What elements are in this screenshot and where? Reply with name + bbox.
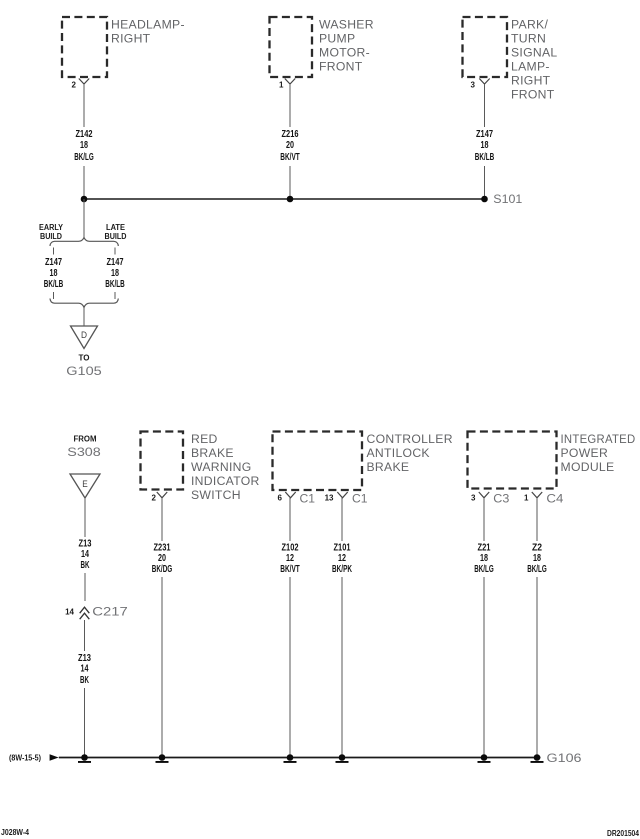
in-line connector C217 pin 14	[65, 605, 128, 620]
svg-text:Z2: Z2	[532, 543, 542, 554]
ground junction Z21	[478, 754, 491, 763]
svg-text:13: 13	[325, 494, 334, 503]
svg-text:POWER: POWER	[561, 446, 609, 460]
svg-text:Z142: Z142	[76, 129, 93, 140]
wire stub late build lower	[114, 292, 116, 299]
svg-text:WARNING: WARNING	[191, 460, 252, 474]
pin 2 of headlamp-right	[72, 79, 90, 90]
wire Z231 to ground bus	[161, 498, 163, 757]
ground junction Z2 and label G106	[531, 751, 582, 765]
svg-text:D: D	[81, 330, 87, 340]
svg-text:18: 18	[481, 140, 489, 151]
svg-text:18: 18	[533, 553, 541, 564]
svg-text:C1: C1	[352, 492, 368, 506]
svg-text:INTEGRATED: INTEGRATED	[561, 432, 636, 446]
wire stub early build lower	[53, 292, 55, 299]
svg-text:BK/PK: BK/PK	[332, 564, 352, 575]
svg-text:Z13: Z13	[78, 653, 91, 664]
svg-text:RIGHT: RIGHT	[511, 74, 551, 88]
svg-text:BK: BK	[81, 560, 90, 571]
svg-text:BK/LB: BK/LB	[105, 279, 125, 290]
svg-text:PUMP: PUMP	[319, 32, 355, 46]
svg-text:20: 20	[158, 553, 166, 564]
svg-text:BK/LG: BK/LG	[474, 564, 494, 575]
svg-text:LAMP-: LAMP-	[511, 60, 550, 74]
wire label Z147 18 BK/LB late build	[105, 257, 125, 290]
svg-text:S308: S308	[67, 445, 101, 459]
wire Z102 to ground bus	[289, 498, 291, 757]
svg-text:E: E	[82, 479, 88, 489]
wire label Z13 14 BK lower	[78, 653, 91, 686]
svg-text:3: 3	[471, 81, 476, 90]
svg-text:BK: BK	[80, 675, 89, 686]
pin 13 connector C1 of controller antilock brake	[325, 492, 368, 506]
svg-text:20: 20	[286, 140, 294, 151]
svg-text:12: 12	[338, 553, 346, 564]
merge brace lower	[50, 299, 118, 308]
svg-text:J028W-4: J028W-4	[1, 828, 29, 837]
svg-text:2: 2	[72, 81, 77, 90]
wire label Z147 18 BK/LB early build	[44, 257, 64, 290]
pin 1 connector C4 of integrated power module	[524, 492, 564, 506]
svg-text:BK/LG: BK/LG	[74, 152, 94, 163]
svg-text:BK/DG: BK/DG	[152, 564, 173, 575]
svg-text:C3: C3	[493, 492, 509, 506]
svg-text:PARK/: PARK/	[511, 18, 548, 32]
wire label Z21 18 BK/LG	[474, 543, 494, 576]
svg-text:6: 6	[278, 494, 283, 503]
ground junction Z231	[156, 754, 169, 763]
junction dot at headlamp wire on S101	[81, 196, 88, 203]
bus wire of splice S101	[84, 198, 485, 200]
svg-text:18: 18	[111, 268, 119, 279]
svg-text:RED: RED	[191, 432, 218, 446]
svg-text:BRAKE: BRAKE	[191, 446, 234, 460]
svg-text:14: 14	[65, 608, 74, 617]
ground junction Z13	[78, 754, 91, 763]
svg-text:18: 18	[80, 140, 88, 151]
svg-text:BK/VT: BK/VT	[280, 152, 300, 163]
component box: CONTROLLER ANTILOCK BRAKE	[273, 432, 453, 491]
svg-text:FROM: FROM	[74, 435, 97, 444]
wire label Z216 20 BK/VT	[280, 129, 300, 163]
svg-text:BRAKE: BRAKE	[367, 460, 410, 474]
svg-text:18: 18	[50, 268, 58, 279]
off-page connector D to G105	[71, 326, 98, 349]
svg-text:14: 14	[81, 549, 89, 560]
wire label Z147 18 BK/LB	[475, 129, 495, 163]
component box: INTEGRATED POWER MODULE	[468, 432, 636, 489]
svg-text:BK/LB: BK/LB	[44, 279, 64, 290]
svg-text:Z147: Z147	[45, 257, 62, 268]
junction dot at washer pump wire on S101	[287, 196, 294, 203]
svg-text:14: 14	[81, 664, 89, 675]
label FROM S308	[67, 435, 101, 460]
label TO G105	[66, 354, 102, 379]
pin 2 of red brake warning switch	[152, 492, 168, 503]
svg-text:EARLY: EARLY	[39, 223, 64, 232]
svg-text:Z101: Z101	[334, 543, 351, 554]
svg-text:Z216: Z216	[282, 129, 299, 140]
svg-text:BK/VT: BK/VT	[280, 564, 300, 575]
ground junction Z101	[336, 754, 349, 763]
wire label Z101 12 BK/PK	[332, 543, 352, 576]
svg-text:1: 1	[279, 81, 284, 90]
wire label Z142 18 BK/LG	[74, 129, 94, 163]
svg-text:C4: C4	[546, 492, 563, 506]
wire Z21 to ground bus	[483, 498, 485, 757]
svg-text:1: 1	[524, 494, 529, 503]
svg-text:G105: G105	[66, 364, 102, 378]
pin 3 of park/turn signal lamp	[471, 79, 490, 90]
off-page connector E from S308	[70, 474, 100, 498]
component box: RED BRAKE WARNING INDICATOR SWITCH	[141, 432, 260, 503]
label EARLY BUILD	[39, 223, 64, 241]
component box: PARK/TURN SIGNAL LAMP-RIGHT FRONT	[463, 17, 558, 102]
svg-text:Z102: Z102	[282, 543, 299, 554]
svg-text:MODULE: MODULE	[561, 460, 615, 474]
svg-text:18: 18	[480, 553, 488, 564]
wire Z101 to ground bus	[341, 498, 343, 757]
svg-text:BUILD: BUILD	[105, 232, 127, 241]
wire Z13 from C217 to ground bus	[84, 620, 86, 757]
svg-text:TURN: TURN	[511, 32, 546, 46]
svg-text:Z13: Z13	[79, 539, 92, 550]
svg-text:BUILD: BUILD	[40, 232, 62, 241]
svg-text:BK/LB: BK/LB	[475, 152, 495, 163]
label LATE BUILD	[105, 223, 127, 241]
svg-text:Z21: Z21	[478, 543, 491, 554]
svg-text:12: 12	[286, 553, 294, 564]
split brace upper	[50, 238, 118, 247]
wire stub late build	[114, 248, 116, 255]
wire label Z231 20 BK/DG	[152, 543, 173, 576]
svg-text:S101: S101	[493, 192, 522, 206]
wire Z147 from park/turn lamp to splice S101	[484, 84, 486, 199]
wire Z216 from washer pump to splice S101	[289, 84, 291, 199]
svg-text:TO: TO	[79, 354, 90, 363]
pin 3 connector C3 of integrated power module	[471, 492, 510, 506]
svg-text:G106: G106	[547, 751, 582, 765]
wire Z142 from headlamp to splice S101	[83, 84, 85, 199]
wire stub early build	[53, 248, 55, 255]
wire Z13 from connector E to C217	[84, 498, 86, 601]
svg-text:2: 2	[152, 494, 157, 503]
svg-text:RIGHT: RIGHT	[111, 32, 151, 46]
svg-text:(8W-15-5): (8W-15-5)	[9, 754, 41, 763]
wire label Z13 14 BK upper	[79, 539, 92, 572]
svg-text:ANTILOCK: ANTILOCK	[367, 446, 430, 460]
svg-text:CONTROLLER: CONTROLLER	[367, 432, 453, 446]
svg-text:DR201504: DR201504	[607, 829, 639, 838]
svg-text:INDICATOR: INDICATOR	[191, 474, 260, 488]
wire Z2 to ground G106	[536, 498, 538, 757]
svg-text:BK/LG: BK/LG	[527, 564, 547, 575]
ground bus wire G106	[59, 757, 541, 759]
svg-text:C1: C1	[300, 492, 316, 506]
svg-text:Z147: Z147	[476, 129, 493, 140]
junction dot and label of splice S101	[481, 192, 522, 206]
svg-text:WASHER: WASHER	[319, 18, 374, 32]
wire from merge to off-page connector D	[83, 308, 85, 326]
svg-text:SWITCH: SWITCH	[191, 488, 241, 502]
off-page arrow into ground bus	[50, 754, 59, 760]
component box: HEADLAMP-RIGHT	[62, 17, 185, 77]
svg-text:FRONT: FRONT	[511, 88, 555, 102]
svg-text:Z231: Z231	[154, 543, 171, 554]
component box: WASHER PUMP MOTOR-FRONT	[270, 17, 374, 77]
svg-text:C217: C217	[92, 605, 128, 619]
svg-text:3: 3	[471, 494, 476, 503]
svg-text:HEADLAMP-: HEADLAMP-	[111, 18, 185, 32]
ground junction Z102	[284, 754, 297, 763]
pin 1 of washer pump motor	[279, 79, 295, 90]
svg-text:Z147: Z147	[107, 257, 124, 268]
svg-text:SIGNAL: SIGNAL	[511, 46, 558, 60]
wire label Z102 12 BK/VT	[280, 543, 300, 576]
svg-text:LATE: LATE	[106, 223, 126, 232]
svg-text:MOTOR-: MOTOR-	[319, 46, 370, 60]
wire label Z2 18 BK/LG	[527, 543, 547, 576]
wire from S101 down to early/late split	[83, 199, 85, 238]
svg-text:FRONT: FRONT	[319, 60, 363, 74]
pin 6 connector C1 of controller antilock brake	[278, 492, 316, 506]
